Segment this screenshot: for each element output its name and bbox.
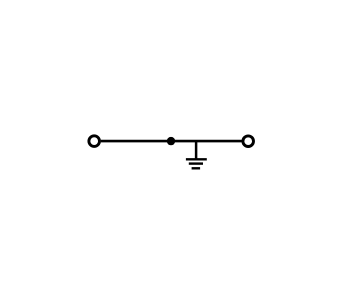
wire (ground tap, vertical segment) — [195, 141, 198, 159]
terminal T1 (left open-circle terminal) — [89, 136, 100, 147]
terminal T2 (right open-circle terminal) — [243, 136, 254, 147]
wire (horizontal conductor from T1 to T2) — [101, 140, 242, 143]
node A (junction dot on wire) — [167, 137, 175, 145]
ground (earth symbol, three bars) — [186, 159, 207, 168]
